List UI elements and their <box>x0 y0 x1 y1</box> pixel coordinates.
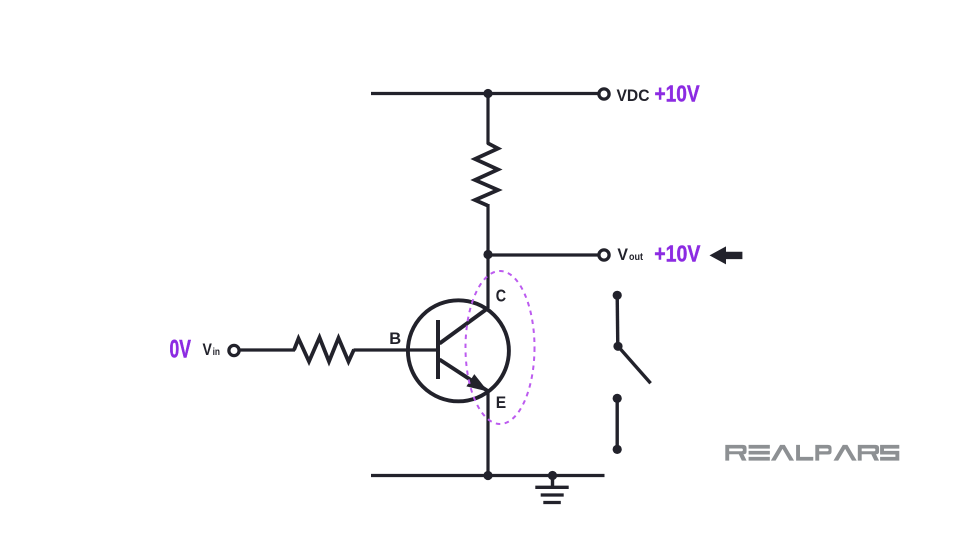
wire: Vin terminal to base resistor <box>241 348 296 351</box>
transistor Q1 collector lead <box>440 308 489 344</box>
switch: pivot dot <box>613 342 622 351</box>
logo REALPARS <box>725 445 899 461</box>
logo letter P <box>815 445 831 461</box>
ground symbol bar 3 <box>543 501 561 504</box>
wire: junction to resistor top <box>486 94 489 145</box>
transistor Q1 base bar <box>436 320 440 379</box>
logo letter S <box>880 445 899 461</box>
ground symbol bar 2 <box>541 493 564 496</box>
switch: open lever arm <box>618 346 651 383</box>
wire: resistor bottom to Vout junction <box>486 204 489 255</box>
region highlight: dashed ellipse around transistor C-E <box>466 271 535 424</box>
wire: Vout junction down to collector <box>486 255 489 308</box>
wire: base resistor to transistor base <box>354 348 439 351</box>
switch: top terminal dot <box>613 291 622 300</box>
terminal Vin <box>229 345 239 355</box>
node: collector-rail junction <box>483 89 492 98</box>
logo letter L <box>796 445 813 461</box>
svg-text:V: V <box>203 341 212 359</box>
svg-text:B: B <box>389 330 401 348</box>
logo letter E <box>749 445 770 461</box>
svg-text:C: C <box>496 285 507 305</box>
logo letter A <box>771 445 794 461</box>
svg-text:+10V: +10V <box>654 241 701 267</box>
ground symbol bar 1 <box>535 486 568 489</box>
svg-text:out: out <box>629 251 643 263</box>
terminal VDC <box>599 89 609 99</box>
switch: upper pole wire <box>616 295 620 346</box>
svg-text:E: E <box>496 394 506 412</box>
switch: lower pole wire <box>616 398 619 449</box>
logo letter R <box>725 445 746 461</box>
svg-text:0V: 0V <box>170 336 192 364</box>
transistor Q1 body circle <box>408 300 509 401</box>
node: ground-symbol junction <box>548 471 557 480</box>
node: emitter-rail junction <box>483 471 492 480</box>
logo letter R <box>858 445 879 461</box>
wire: VDC top rail <box>371 92 599 95</box>
terminal Vout <box>599 250 609 260</box>
switch: bottom terminal dot <box>613 445 622 454</box>
wire: emitter down to ground rail <box>486 390 489 476</box>
svg-text:VDC: VDC <box>617 86 650 105</box>
logo letter A <box>833 445 856 461</box>
node: Vout junction <box>483 250 492 259</box>
svg-text:+10V: +10V <box>655 81 700 107</box>
resistor RB (base resistor) <box>294 338 354 362</box>
arrow: output indicator <box>710 246 743 264</box>
wire: junction to Vout terminal <box>488 253 599 256</box>
svg-text:V: V <box>617 246 628 264</box>
wire: ground rail <box>371 474 605 477</box>
transistor Q1 emitter lead <box>440 360 489 392</box>
svg-text:in: in <box>213 346 220 358</box>
resistor RC (collector resistor) <box>475 143 498 206</box>
switch: lower contact dot <box>613 394 622 403</box>
transistor Q1 emitter arrowhead <box>466 374 488 391</box>
ground symbol stub <box>551 476 554 487</box>
